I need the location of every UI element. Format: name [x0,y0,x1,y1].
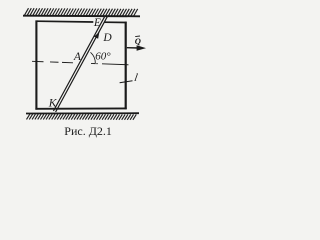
svg-text:60°: 60° [95,50,111,62]
svg-text:A: A [73,51,82,63]
svg-text:K: K [48,97,58,109]
svg-text:l: l [133,72,138,84]
svg-text:Q: Q [135,36,141,46]
svg-text:E: E [93,17,101,29]
svg-text:D: D [102,32,112,44]
svg-text:Рис. Д2.1: Рис. Д2.1 [64,124,112,138]
